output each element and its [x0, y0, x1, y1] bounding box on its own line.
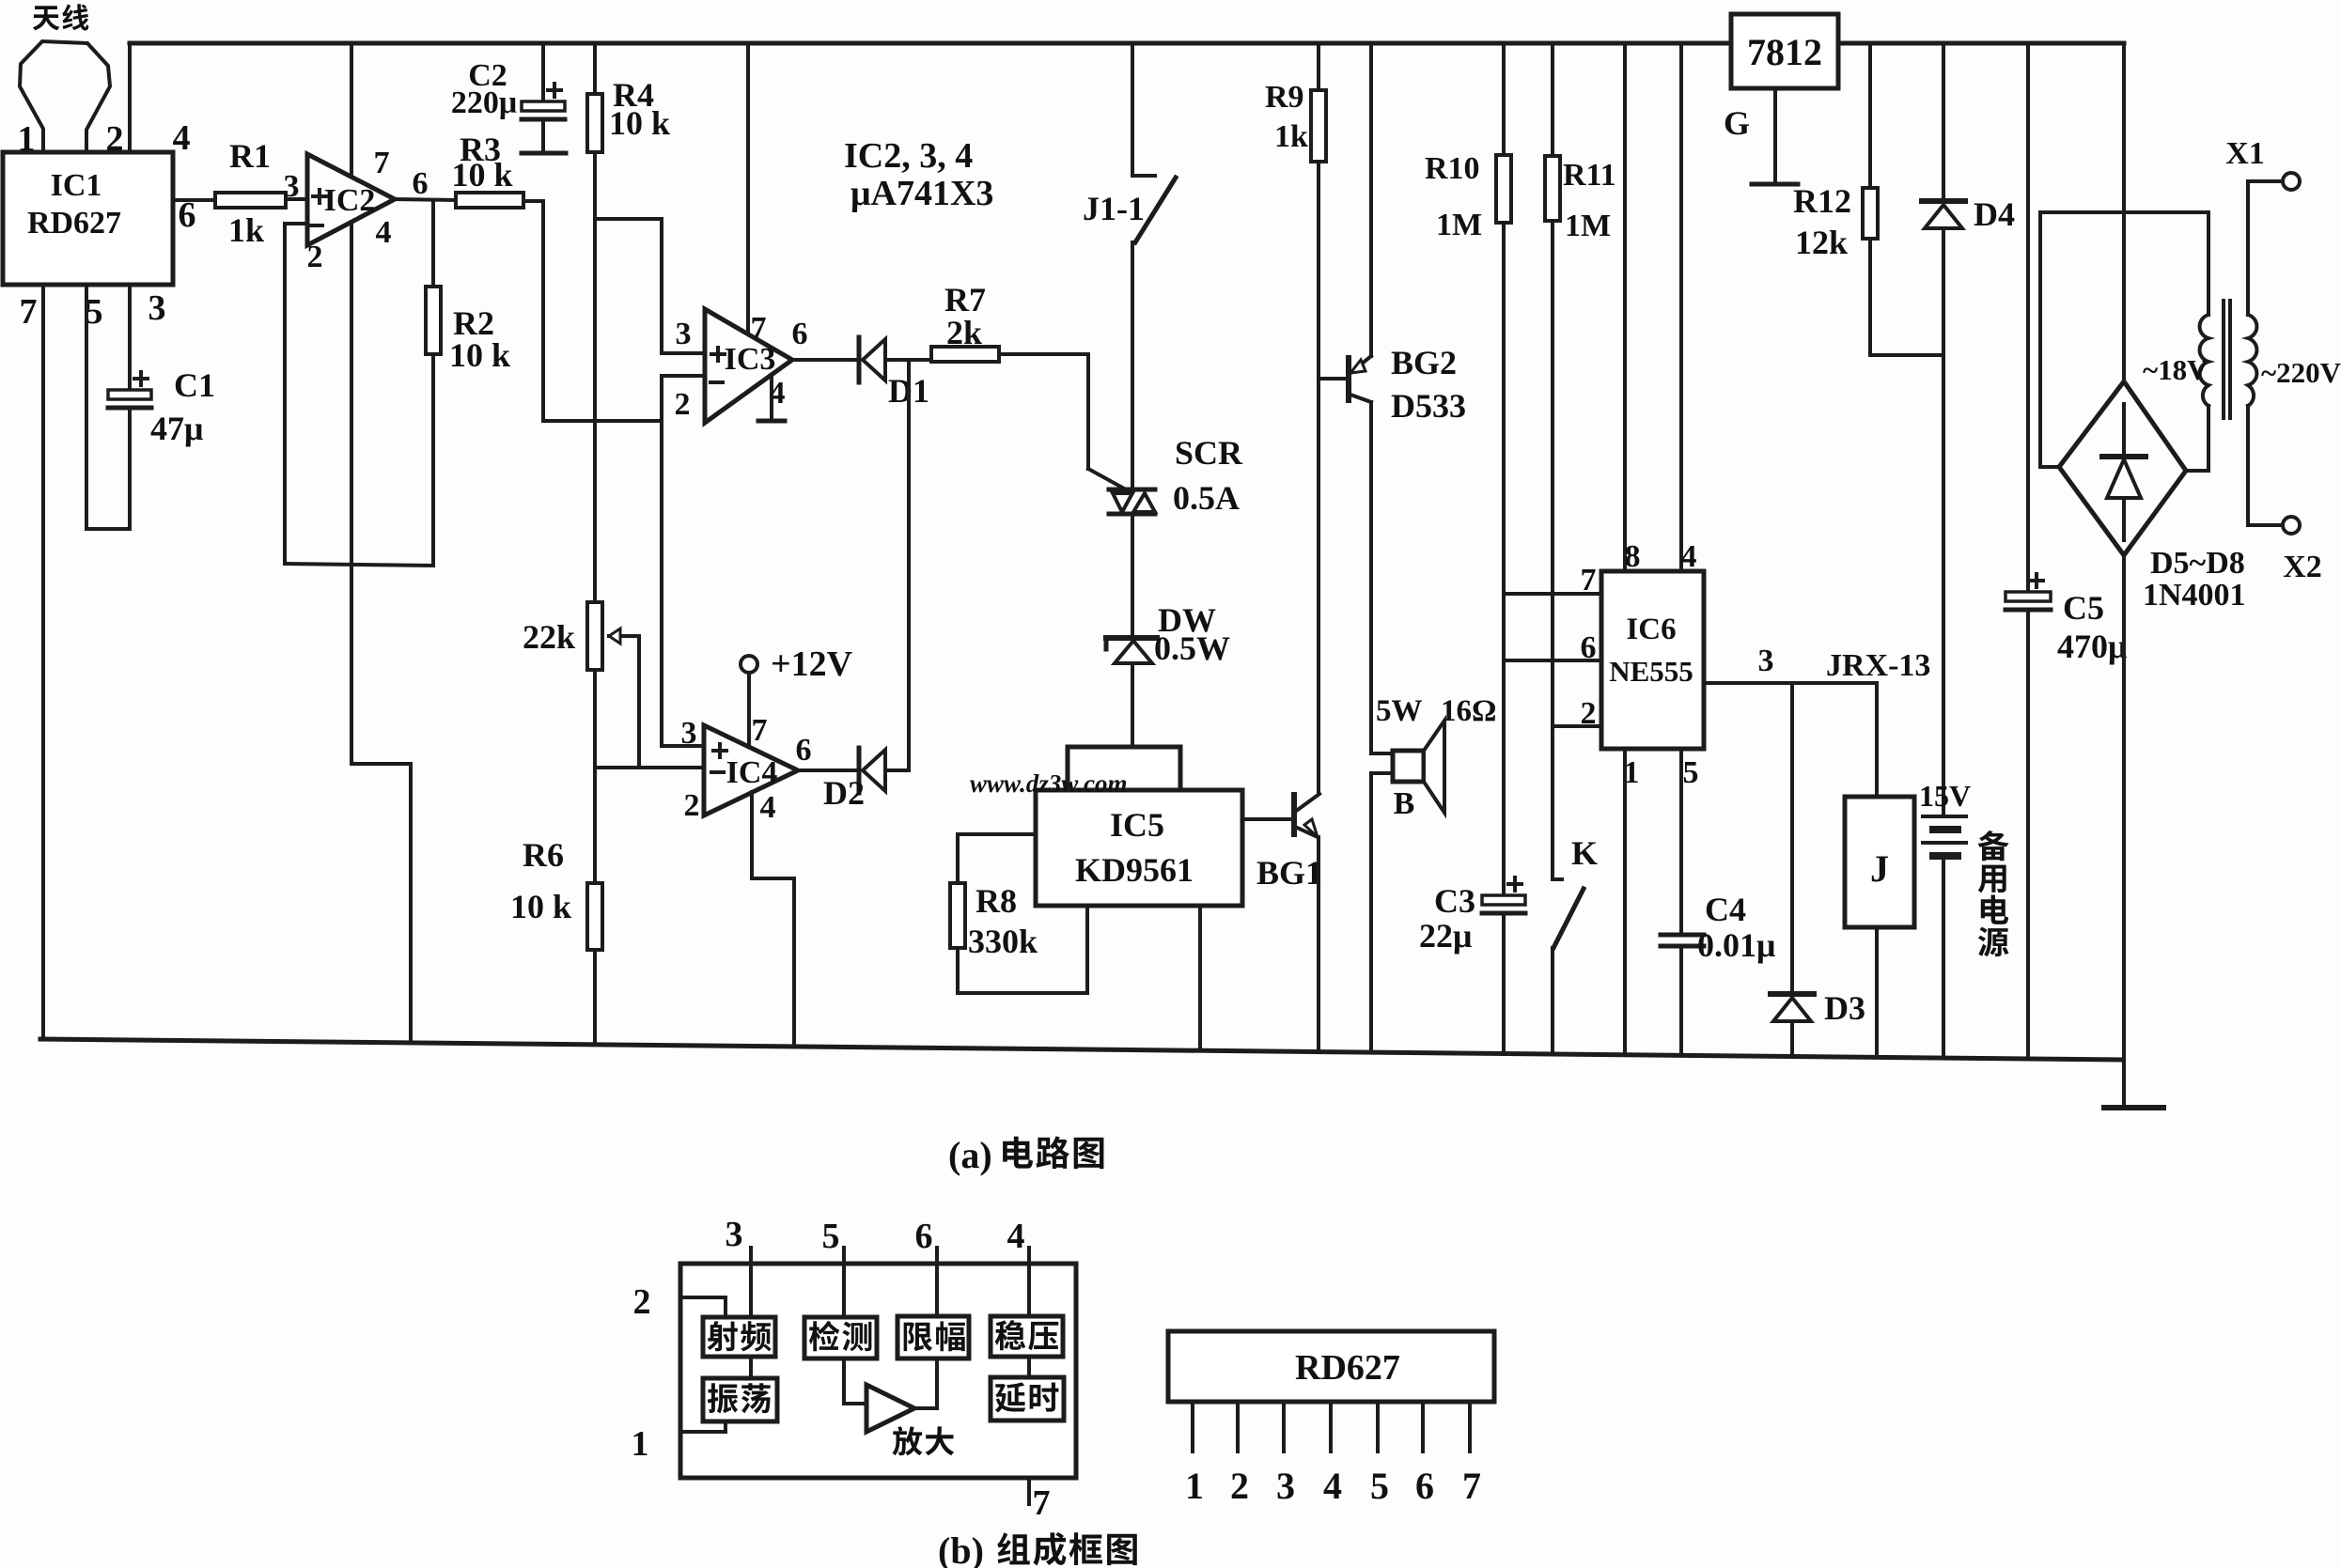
block 振荡 — [703, 1357, 777, 1421]
wire C1 to pin5 junction — [86, 408, 130, 529]
svg-text:5: 5 — [1683, 755, 1699, 790]
svg-text:BG2: BG2 — [1391, 344, 1457, 381]
svg-text:IC2: IC2 — [324, 183, 376, 218]
RD627 package pins — [1185, 1402, 1481, 1507]
svg-text:47μ: 47μ — [150, 410, 203, 447]
(a) 电路图 caption — [948, 1134, 1103, 1176]
DW labels — [1154, 601, 1230, 667]
zener diode DW — [1106, 638, 1157, 747]
NE555 pin 3 label — [1758, 644, 1774, 678]
svg-text:J1-1: J1-1 — [1083, 190, 1145, 227]
wire IC1 pin7 to ground bus — [41, 285, 45, 1039]
wire speaker to ground bus — [1369, 773, 1373, 1052]
wire bottom ground bus — [40, 1039, 2122, 1060]
IC1 pin 2 label — [106, 119, 124, 159]
diode D3 — [1771, 683, 1865, 1057]
svg-text:15V: 15V — [1919, 779, 1971, 813]
IC1 pin 7 label — [20, 292, 38, 332]
resistor R9 — [1265, 43, 1326, 794]
svg-text:R7: R7 — [944, 281, 986, 318]
svg-text:RD627: RD627 — [27, 206, 121, 241]
ground IC3 pin4 — [758, 375, 785, 421]
IC1 RD627 box — [3, 152, 173, 285]
svg-text:D5~D8: D5~D8 — [2150, 546, 2245, 581]
IC5 KD9561 box — [1036, 790, 1242, 906]
battery 15V backup — [1919, 355, 1971, 1058]
relay contact J1-1 — [1083, 43, 1176, 489]
(b) 组成框图 caption — [938, 1529, 1137, 1568]
svg-text:R12: R12 — [1793, 182, 1851, 220]
bridge rectifier D5~D8 — [2059, 381, 2186, 555]
svg-text:1: 1 — [1185, 1465, 1204, 1507]
svg-text:IC2, 3, 4: IC2, 3, 4 — [844, 136, 973, 176]
svg-text:2: 2 — [675, 387, 691, 422]
wire bridge - output to ground — [2122, 555, 2126, 1108]
IC3 pin 2 label — [675, 387, 691, 422]
IC1 pin 5 label — [86, 292, 103, 332]
op-amp IC2 — [307, 154, 395, 245]
IC4 pin 4 label — [760, 790, 776, 825]
svg-text:D2: D2 — [823, 774, 865, 812]
speaker B — [1371, 694, 1496, 821]
svg-text:16Ω: 16Ω — [1441, 694, 1496, 728]
IC4 pin 2 label — [684, 788, 700, 823]
IC3 pin 4 label — [770, 376, 786, 411]
NE555 pin 8 label — [1625, 539, 1641, 574]
capacitor C5 — [2005, 43, 2127, 1059]
svg-text:4: 4 — [173, 118, 191, 158]
svg-text:IC6: IC6 — [1626, 613, 1676, 646]
op-amp IC3 — [705, 309, 792, 423]
capacitor C1 — [108, 366, 215, 447]
svg-text:2: 2 — [1581, 696, 1597, 731]
capacitor C3 — [1419, 877, 1525, 1053]
svg-text:5W: 5W — [1376, 694, 1423, 728]
svg-text:1M: 1M — [1436, 208, 1482, 242]
svg-text:C3: C3 — [1434, 882, 1475, 920]
switch K — [1553, 834, 1598, 1054]
NE555 pin 4 label — [1681, 539, 1697, 574]
resistor R11 — [1545, 43, 1616, 879]
resistor R3 — [451, 131, 523, 208]
svg-text:7: 7 — [752, 713, 768, 748]
IC1 pin 3 label — [148, 288, 166, 328]
svg-text:7: 7 — [1581, 563, 1597, 598]
capacitor C2 — [451, 43, 566, 153]
wire IC2 pin4 down — [350, 222, 353, 566]
svg-text:2: 2 — [307, 240, 323, 274]
svg-text:R11: R11 — [1563, 158, 1616, 193]
block amplifier 放大 — [844, 1358, 954, 1455]
IC6 NE555 box — [1601, 571, 1704, 749]
svg-text:2k: 2k — [946, 314, 982, 351]
svg-text:7: 7 — [1462, 1465, 1481, 1507]
svg-text:12k: 12k — [1795, 224, 1848, 261]
svg-text:7: 7 — [20, 292, 38, 332]
wire R1 to IC2 pin3 — [286, 197, 307, 201]
svg-text:3: 3 — [1276, 1465, 1295, 1507]
svg-text:~220V: ~220V — [2261, 356, 2341, 389]
watermark — [970, 769, 1128, 798]
IC3 pin 7 label — [751, 311, 767, 346]
terminal X2 — [2248, 517, 2322, 584]
resistor R2 — [426, 200, 510, 565]
svg-text:+12V: +12V — [771, 644, 853, 684]
ground symbol — [2104, 1105, 2163, 1110]
wire BG2 collector to speaker — [1369, 402, 1373, 753]
IC1 pin 4 label — [173, 118, 191, 158]
wire IC3 pin2 to node — [662, 376, 705, 421]
block pin 3 — [726, 1215, 752, 1264]
block 限幅 — [897, 1264, 969, 1358]
svg-text:IC1: IC1 — [51, 168, 102, 203]
svg-text:3: 3 — [726, 1215, 743, 1254]
svg-text:(b): (b) — [938, 1529, 984, 1568]
NE555 pin 6 label — [1581, 630, 1597, 665]
wire BG1 emitter to ground bus — [1317, 837, 1320, 1052]
svg-text:2: 2 — [1230, 1465, 1249, 1507]
svg-text:10 k: 10 k — [609, 104, 670, 142]
svg-text:470μ: 470μ — [2057, 628, 2127, 665]
terminal +12V — [741, 644, 853, 744]
wire top +12V bus (left segment) — [130, 41, 1731, 46]
resistor R8 — [950, 834, 1087, 993]
wire bridge AC right — [2186, 406, 2208, 471]
svg-text:1: 1 — [632, 1424, 649, 1464]
svg-text:G: G — [1724, 104, 1750, 142]
svg-text:SCR: SCR — [1175, 434, 1243, 472]
node vertical D1/D2/R7 — [907, 360, 911, 770]
IC4 pin 7 label — [752, 713, 768, 748]
wire NE555 pin7 — [1504, 592, 1601, 596]
wire NE555 pin4 to top bus — [1679, 43, 1683, 571]
svg-text:J: J — [1870, 847, 1889, 890]
svg-text:4: 4 — [1681, 539, 1697, 574]
svg-text:1: 1 — [1624, 755, 1640, 790]
svg-text:3: 3 — [1758, 644, 1774, 678]
NE555 pin 5 label — [1683, 755, 1699, 790]
block pin 4 — [1007, 1217, 1030, 1264]
wire IC1 pin6 to R1 — [173, 198, 215, 202]
svg-text:0.5A: 0.5A — [1173, 479, 1240, 517]
transformer secondary ~18V — [2143, 212, 2208, 406]
svg-text:2: 2 — [106, 119, 124, 159]
svg-text:7812: 7812 — [1747, 31, 1822, 73]
transformer primary ~220V — [2248, 181, 2341, 525]
relay J JRX-13 — [1826, 648, 1930, 1057]
IC4 pin 3 label — [681, 716, 697, 751]
svg-text:(a): (a) — [948, 1134, 992, 1176]
ground G of 7812 — [1724, 88, 1798, 184]
diode D2 — [823, 748, 885, 812]
svg-text:D3: D3 — [1824, 989, 1865, 1027]
svg-text:NE555: NE555 — [1609, 655, 1693, 688]
antenna — [20, 41, 110, 152]
IC2,3,4 μA741X3 label — [844, 136, 993, 213]
svg-text:B: B — [1394, 786, 1415, 821]
svg-text:6: 6 — [1415, 1465, 1434, 1507]
svg-text:~18V: ~18V — [2143, 353, 2208, 386]
transformer core — [2224, 301, 2230, 418]
svg-text:10 k: 10 k — [510, 888, 571, 925]
block 延时 — [991, 1357, 1064, 1421]
svg-text:7: 7 — [1033, 1483, 1051, 1523]
wire junction down-jog to ground bus — [351, 566, 411, 1043]
svg-text:5: 5 — [1370, 1465, 1389, 1507]
wire IC4 output — [798, 768, 857, 772]
block pin 7 — [1029, 1478, 1051, 1523]
svg-text:220μ: 220μ — [451, 85, 517, 120]
NE555 pin 2 label — [1581, 696, 1597, 731]
terminal X1 — [2225, 136, 2300, 190]
svg-text:0.01μ: 0.01μ — [1697, 926, 1775, 964]
wire node down to IC4 pin3 — [662, 421, 704, 746]
svg-text:IC4: IC4 — [726, 755, 778, 790]
wire pot node to IC4 pin2 — [595, 670, 704, 883]
thyristor SCR — [1109, 489, 1155, 636]
svg-text:K: K — [1571, 834, 1598, 872]
wire IC1 pin5 down — [85, 285, 88, 529]
resistor R7 — [931, 281, 999, 362]
wire NE555 pin2 — [1553, 724, 1601, 728]
block pin 1 — [632, 1421, 726, 1464]
NE555 pin 1 label — [1624, 755, 1640, 790]
diode D4 — [1922, 43, 2015, 355]
svg-text:D533: D533 — [1391, 387, 1466, 425]
svg-text:6: 6 — [915, 1217, 933, 1256]
IC4 pin 6 label — [796, 733, 812, 768]
wire IC2 output to R3 — [395, 199, 456, 200]
svg-text:1k: 1k — [228, 211, 264, 249]
transistor BG1 — [1242, 794, 1322, 892]
svg-text:C1: C1 — [174, 366, 215, 404]
wire IC3 output — [792, 358, 857, 362]
IC3 pin 6 label — [792, 317, 808, 351]
diode D1 — [859, 337, 929, 410]
svg-text:0.5W: 0.5W — [1154, 629, 1230, 667]
svg-text:C4: C4 — [1705, 891, 1746, 928]
wire IC1 pin3 to C1 — [128, 285, 132, 390]
svg-text:4: 4 — [376, 215, 392, 250]
RD627 package box — [1168, 1331, 1494, 1402]
svg-text:X1: X1 — [2225, 136, 2265, 171]
resistor R1 — [215, 137, 286, 249]
svg-text:IC5: IC5 — [1110, 806, 1164, 844]
svg-text:www.dz3w.com: www.dz3w.com — [970, 769, 1128, 798]
IC2 pin 2 label — [307, 240, 323, 274]
svg-text:D4: D4 — [1974, 195, 2015, 233]
wire IC3 pin7 to top bus — [746, 43, 750, 334]
svg-text:R1: R1 — [229, 137, 271, 175]
wire bridge + output to top bus — [2122, 43, 2126, 381]
svg-text:5: 5 — [822, 1217, 840, 1256]
D5~D8 1N4001 label — [2143, 546, 2246, 613]
resistor R10 — [1425, 43, 1511, 895]
wire R4 to IC3 pin3 staircase — [595, 219, 705, 353]
svg-text:330k: 330k — [968, 923, 1038, 960]
wire IC5 ground pin — [1198, 906, 1202, 1050]
SCR labels — [1173, 434, 1243, 517]
RD627 block diagram box — [680, 1264, 1076, 1478]
IC1 pin 1 label — [18, 119, 36, 159]
wire IC2 pin2 feedback — [285, 224, 306, 564]
wire IC4 pin4 to ground bus — [752, 792, 794, 1047]
IC1 pin 6 label — [179, 195, 196, 235]
wire D1 to R7 node — [885, 358, 931, 362]
capacitor C4 — [1661, 891, 1775, 1055]
svg-text:22k: 22k — [523, 618, 575, 656]
antenna 天线 label — [33, 4, 89, 30]
备用电源 label — [1978, 831, 2009, 956]
svg-text:KD9561: KD9561 — [1075, 851, 1194, 889]
NE555 pin 7 label — [1581, 563, 1597, 598]
svg-text:JRX-13: JRX-13 — [1826, 648, 1930, 683]
svg-text:R10: R10 — [1425, 151, 1480, 186]
svg-text:μA741X3: μA741X3 — [851, 174, 993, 213]
svg-text:22μ: 22μ — [1419, 917, 1472, 955]
svg-text:1M: 1M — [1565, 209, 1611, 243]
block 检测 — [804, 1264, 877, 1358]
svg-text:1k: 1k — [1274, 119, 1308, 154]
regulator 7812 — [1731, 14, 1838, 88]
svg-text:BG1: BG1 — [1256, 854, 1322, 892]
IC2 pin 3 label — [284, 169, 300, 204]
block pin 6 — [915, 1217, 938, 1264]
potentiometer 22k — [523, 602, 639, 767]
svg-text:R8: R8 — [975, 882, 1017, 920]
svg-text:3: 3 — [676, 317, 692, 351]
wire R3 right to node — [523, 201, 543, 421]
svg-text:2: 2 — [633, 1282, 651, 1322]
svg-text:1N4001: 1N4001 — [2143, 578, 2246, 613]
transistor BG2 — [1319, 344, 1466, 425]
svg-text:1: 1 — [18, 119, 36, 159]
svg-text:IC3: IC3 — [725, 342, 776, 377]
svg-text:3: 3 — [284, 169, 300, 204]
wire BG2 emitter to top bus — [1369, 43, 1373, 356]
svg-text:7: 7 — [751, 311, 767, 346]
block 射频 — [703, 1264, 775, 1357]
svg-text:4: 4 — [760, 790, 776, 825]
IC5 top tab — [1068, 747, 1180, 793]
svg-text:3: 3 — [148, 288, 166, 328]
wire NE555 pin8 to top bus — [1623, 43, 1627, 571]
wire NE555 pin5 to C4 — [1679, 749, 1683, 935]
IC3 pin 3 label — [676, 317, 692, 351]
wire NE555 pin6 — [1504, 659, 1601, 662]
svg-text:10 k: 10 k — [449, 336, 510, 374]
wire IC2 pin7 to top bus — [350, 43, 353, 177]
block 稳压 — [991, 1264, 1063, 1357]
wire D2 to node — [885, 768, 909, 772]
svg-text:6: 6 — [796, 733, 812, 768]
wire R7 to SCR gate — [999, 354, 1126, 489]
svg-text:7: 7 — [374, 146, 390, 180]
svg-text:2: 2 — [684, 788, 700, 823]
resistor R6 — [510, 836, 602, 1045]
wire NE555 pin3 output — [1704, 681, 1877, 685]
svg-text:6: 6 — [792, 317, 808, 351]
svg-text:3: 3 — [681, 716, 697, 751]
wire bridge AC left loop — [2040, 212, 2208, 467]
svg-text:X2: X2 — [2283, 550, 2322, 584]
IC2 pin 4 label — [376, 215, 392, 250]
IC2 pin 6 label — [413, 166, 429, 201]
svg-text:10 k: 10 k — [451, 156, 512, 194]
block pin 2 — [633, 1282, 726, 1322]
wire junction bar under IC2 — [285, 564, 433, 566]
IC2 pin 7 label — [374, 146, 390, 180]
wire NE555 pin1 to ground bus — [1623, 749, 1627, 1055]
op-amp IC4 — [704, 725, 798, 815]
svg-text:6: 6 — [413, 166, 429, 201]
wire IC1 pin4 to top bus — [128, 43, 132, 152]
resistor R4 — [587, 43, 670, 602]
svg-text:R6: R6 — [523, 836, 564, 874]
svg-text:4: 4 — [1007, 1217, 1025, 1256]
resistor R12 — [1793, 43, 1943, 355]
svg-text:C5: C5 — [2063, 589, 2104, 627]
wire node to IC3 area — [543, 419, 662, 423]
svg-text:4: 4 — [1323, 1465, 1342, 1507]
wire top +12V bus (right segment) — [1838, 41, 2124, 46]
svg-text:6: 6 — [1581, 630, 1597, 665]
svg-text:R9: R9 — [1265, 80, 1304, 115]
svg-text:8: 8 — [1625, 539, 1641, 574]
block pin 5 — [822, 1217, 845, 1264]
svg-text:RD627: RD627 — [1295, 1348, 1400, 1388]
